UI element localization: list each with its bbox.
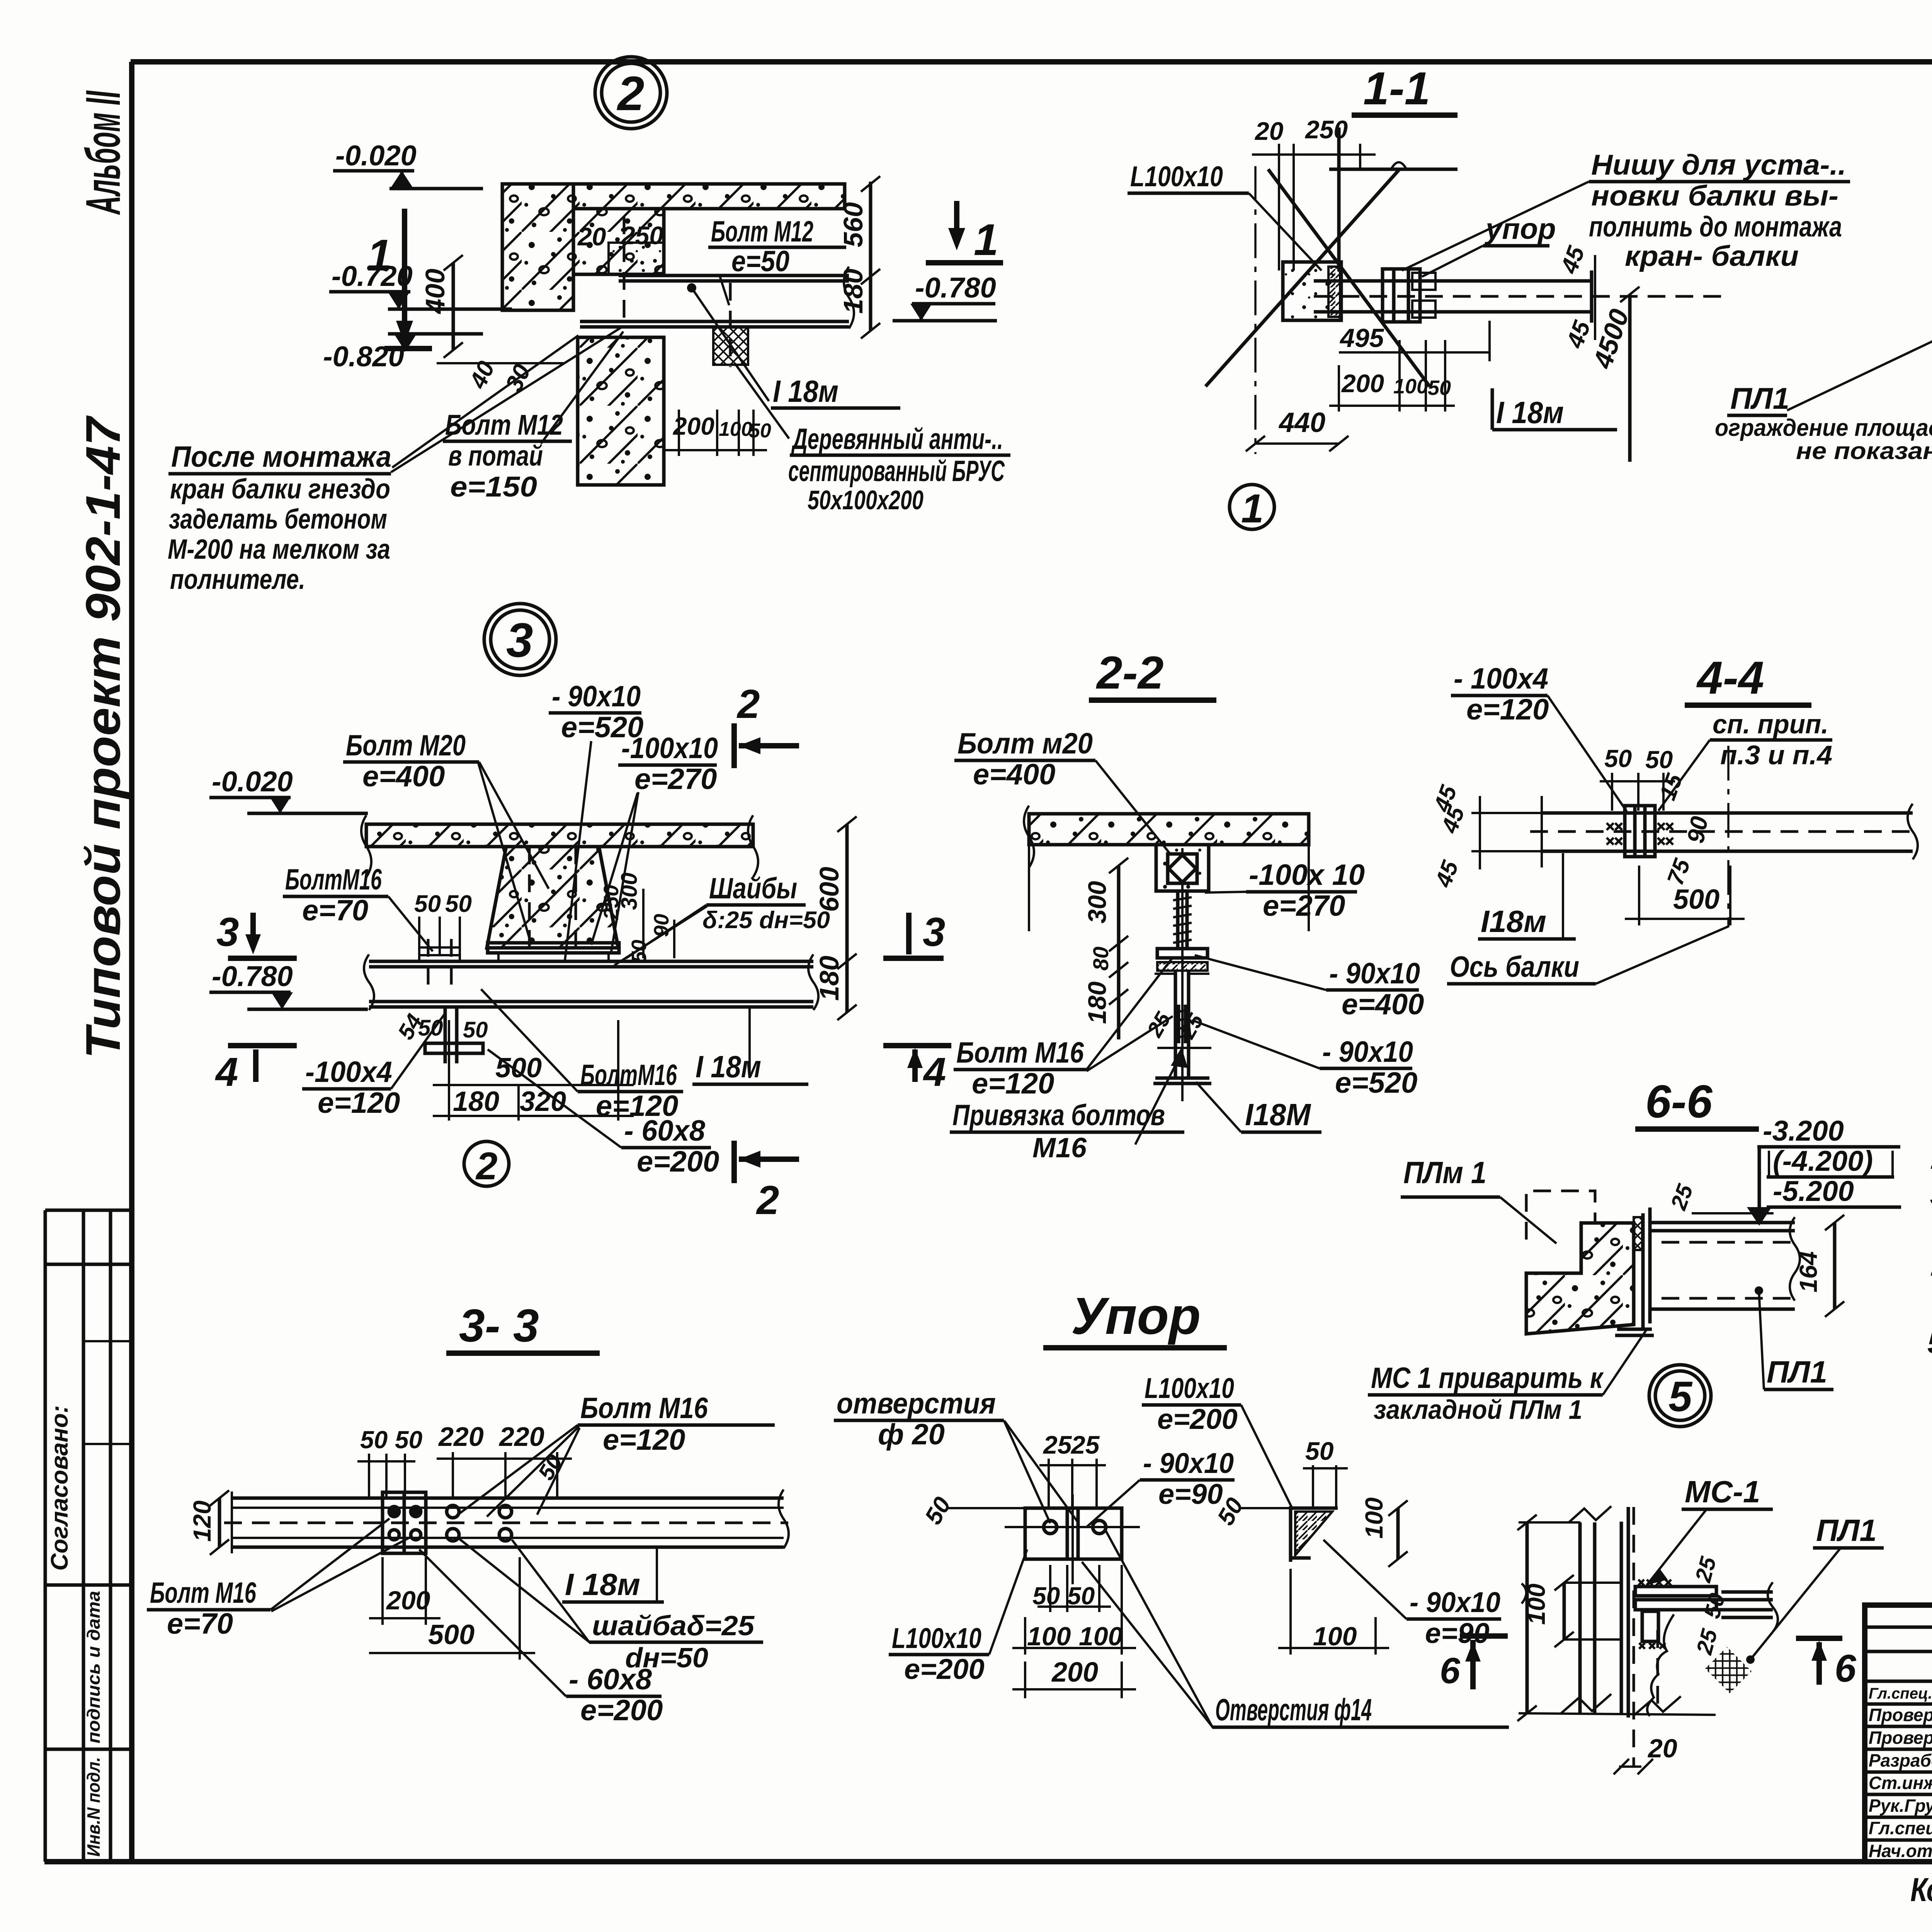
beam lines: [1542, 811, 1913, 815]
niche in plan: [1283, 262, 1341, 320]
plate plan: [1025, 1508, 1122, 1559]
svg-text:220: 220: [498, 1422, 544, 1452]
svg-text:180: 180: [814, 956, 844, 1001]
beam web vertical: [1174, 971, 1177, 1078]
svg-text:50: 50: [360, 1426, 388, 1454]
svg-text:е=400: е=400: [362, 760, 445, 793]
notes list: [1927, 1037, 1932, 1360]
dim chain right 560/180: [869, 182, 872, 331]
svg-text:подпись и дата: подпись и дата: [83, 1591, 104, 1743]
svg-text:е=520: е=520: [1335, 1066, 1417, 1099]
concrete corner dashed outline: [1526, 1191, 1635, 1240]
frame bottom line: [44, 1859, 1932, 1864]
svg-text:25: 25: [1692, 1626, 1723, 1658]
svg-text:е=200: е=200: [637, 1145, 719, 1178]
svg-text:400: 400: [420, 269, 450, 315]
svg-text:25: 25: [1690, 1554, 1721, 1585]
hook bolt below beam: [444, 1007, 447, 1063]
title block: [1865, 1605, 1932, 1864]
svg-text:200: 200: [1051, 1657, 1098, 1688]
svg-text:3: 3: [923, 910, 945, 955]
svg-text:2: 2: [756, 1178, 779, 1223]
concrete pedestal: [487, 847, 618, 948]
anchor bolt with threads: [1176, 891, 1180, 949]
node circle 1: [1230, 485, 1274, 529]
svg-text:-0.820: -0.820: [323, 340, 404, 372]
anchor box: [1156, 845, 1209, 891]
svg-text:25: 25: [1043, 1430, 1072, 1459]
svg-text:е=200: е=200: [904, 1653, 985, 1685]
bolt group left on beam: [427, 939, 430, 989]
frame top line: [131, 59, 1932, 65]
frame left line: [129, 62, 134, 1862]
svg-text:80: 80: [1088, 947, 1113, 971]
beam I18M bottom flange: [369, 1000, 813, 1003]
channel ПЛ1 right: [1721, 1590, 1773, 1594]
splice plate: [383, 1492, 426, 1553]
svg-text:δ:25 dн=50: δ:25 dн=50: [702, 907, 830, 934]
svg-text:полнителе.: полнителе.: [170, 564, 305, 595]
svg-text:- 60х8: - 60х8: [569, 1663, 652, 1696]
svg-text:-0.720: -0.720: [332, 260, 413, 292]
svg-text:заделать бетоном: заделать бетоном: [169, 504, 387, 535]
svg-text:50: 50: [920, 1493, 956, 1529]
svg-text:100: 100: [1360, 1497, 1388, 1539]
svg-text:3- 3: 3- 3: [459, 1300, 539, 1352]
svg-text:-3.200: -3.200: [1763, 1115, 1844, 1147]
svg-text:М16: М16: [1032, 1133, 1087, 1163]
svg-text:Отверстия ф14: Отверстия ф14: [1215, 1692, 1372, 1727]
svg-text:6-6: 6-6: [1645, 1076, 1713, 1128]
svg-text:После монтажа: После монтажа: [171, 440, 391, 473]
svg-text:- 90х10: - 90х10: [1410, 1586, 1500, 1618]
svg-text:250: 250: [1304, 115, 1348, 144]
svg-text:50: 50: [418, 1015, 443, 1041]
svg-text:50: 50: [445, 891, 472, 917]
svg-text:МС 1 приварить к: МС 1 приварить к: [1371, 1362, 1604, 1395]
svg-text:180: 180: [838, 269, 868, 314]
svg-text:- 90х10: - 90х10: [1322, 1036, 1413, 1068]
svg-text:Гл.спец.: Гл.спец.: [1869, 1818, 1932, 1838]
concrete wall under slab: [573, 209, 664, 274]
МС1 angle: [1641, 1213, 1645, 1329]
beam bottom flange: [1155, 1077, 1209, 1080]
svg-text:- 60х8: - 60х8: [624, 1114, 706, 1147]
svg-text:L100х10: L100х10: [1145, 1372, 1234, 1404]
section mark 6 right: [1796, 1636, 1842, 1641]
wooden brus cross-hatched: [713, 327, 748, 365]
svg-text:М-200 на мелком за: М-200 на мелком за: [168, 534, 390, 565]
svg-text:6: 6: [1440, 1650, 1461, 1691]
svg-text:50: 50: [1305, 1437, 1334, 1465]
signature rows: roles: [1869, 1685, 1932, 1861]
svg-text:50: 50: [395, 1426, 422, 1454]
svg-text:отверстия: отверстия: [837, 1387, 996, 1420]
svg-text:- 100х4: - 100х4: [1454, 662, 1548, 695]
svg-text:75: 75: [1662, 855, 1695, 888]
svg-text:Копировал Пихарева.: Копировал Пихарева.: [1910, 1871, 1932, 1908]
svg-text:е=120: е=120: [972, 1067, 1054, 1100]
svg-text:164: 164: [1794, 1251, 1822, 1293]
svg-text:50: 50: [414, 891, 441, 917]
svg-text:50: 50: [1645, 746, 1673, 774]
svg-text:е=400: е=400: [1342, 988, 1424, 1021]
column verticals: [1578, 1522, 1582, 1713]
svg-text:в потай: в потай: [448, 440, 543, 472]
nut plates: [1157, 949, 1207, 958]
svg-text:6: 6: [1835, 1647, 1857, 1690]
beam bolt below: [1177, 1005, 1180, 1043]
svg-text:е=70: е=70: [302, 894, 368, 927]
svg-text:I18м: I18м: [1481, 904, 1546, 939]
beam in plan: [1314, 279, 1592, 283]
section mark 6 left: [1460, 1633, 1508, 1639]
svg-text:100: 100: [719, 418, 752, 440]
svg-text:-0.020: -0.020: [212, 765, 293, 798]
svg-text:45: 45: [1556, 242, 1590, 278]
grout pocket fine dots: [609, 243, 664, 274]
svg-text:е=120: е=120: [1466, 693, 1549, 726]
svg-text:200: 200: [1341, 369, 1384, 398]
concrete corner hatched: [1526, 1223, 1634, 1334]
svg-text:-5.200: -5.200: [1773, 1175, 1854, 1207]
svg-text:е=90: е=90: [1425, 1617, 1490, 1649]
svg-text:ограждение площадки.условна: ограждение площадки.условна: [1715, 415, 1932, 441]
svg-text:не показано.: не показано.: [1796, 438, 1932, 464]
svg-text:Нач.отд.: Нач.отд.: [1869, 1841, 1932, 1861]
svg-text:Гл.спец.Т.О: Гл.спец.Т.О: [1869, 1685, 1932, 1702]
svg-text:220: 220: [438, 1422, 484, 1452]
wall diagonals: [1206, 169, 1400, 386]
svg-text:кран балки гнездо: кран балки гнездо: [170, 474, 390, 505]
svg-text:45: 45: [1430, 857, 1464, 891]
svg-text:50: 50: [463, 1017, 488, 1043]
angle side view: [1289, 1506, 1293, 1562]
svg-text:2: 2: [617, 67, 645, 121]
svg-text:2: 2: [1930, 1143, 1932, 1175]
svg-text:4.: 4.: [1930, 1253, 1932, 1286]
svg-text:(-4.200): (-4.200): [1773, 1145, 1873, 1177]
svg-text:I 18м: I 18м: [565, 1567, 640, 1602]
svg-text:ПЛм 1: ПЛм 1: [1403, 1155, 1486, 1190]
svg-text:20: 20: [577, 222, 606, 251]
svg-text:-100х 10: -100х 10: [1249, 859, 1365, 891]
svg-text:1-1: 1-1: [1363, 63, 1430, 114]
node circle 2 small: [464, 1141, 509, 1186]
svg-text:50: 50: [1604, 745, 1632, 772]
МС1 plates: [1635, 1587, 1716, 1596]
left stamp table: [45, 1210, 131, 1862]
svg-text:250: 250: [620, 221, 663, 250]
svg-text:440: 440: [1278, 407, 1325, 438]
svg-text:Болт М16: Болт М16: [150, 1577, 257, 1609]
svg-text:Согласовано:: Согласовано:: [46, 1405, 73, 1571]
axis line: [1727, 746, 1730, 927]
bolts: [389, 1505, 512, 1541]
beam plan: [232, 1497, 784, 1500]
node circle 5: [1649, 1365, 1711, 1427]
svg-text:- 90х10: - 90х10: [1143, 1447, 1234, 1479]
svg-text:4-4: 4-4: [1696, 652, 1764, 704]
упор bolt cluster: [1383, 269, 1420, 322]
svg-text:Привязка болтов: Привязка болтов: [952, 1099, 1165, 1132]
bottom break: [1561, 1694, 1681, 1715]
svg-text:250: 250: [600, 885, 623, 920]
svg-text:500: 500: [428, 1619, 474, 1650]
svg-text:180: 180: [1083, 981, 1111, 1024]
svg-text:БолтМ16: БолтМ16: [285, 863, 382, 896]
bolt M12 recessed dashed: [623, 216, 626, 327]
svg-text:495: 495: [1339, 323, 1384, 353]
svg-text:600: 600: [814, 867, 844, 912]
bottom captions: [1910, 1871, 1932, 1908]
svg-text:120: 120: [188, 1500, 216, 1542]
svg-text:п.3 и п.4: п.3 и п.4: [1720, 740, 1832, 770]
concrete slab: [1029, 814, 1309, 845]
svg-text:-0.780: -0.780: [212, 960, 293, 992]
concrete slab band: [573, 184, 845, 209]
svg-text:1: 1: [974, 215, 998, 265]
svg-text:300: 300: [1083, 881, 1111, 923]
svg-text:ПЛ1: ПЛ1: [1816, 1513, 1877, 1548]
svg-text:е=90: е=90: [1158, 1478, 1223, 1510]
svg-text:Болт М12: Болт М12: [711, 215, 813, 248]
beam I18M bottom flange: [580, 320, 849, 323]
svg-text:е=400: е=400: [973, 758, 1055, 791]
bolt cluster: [1625, 806, 1655, 857]
svg-text:ПЛ1: ПЛ1: [1730, 381, 1789, 415]
svg-text:Альбом II: Альбом II: [76, 90, 130, 215]
channel ПЛ1: [1650, 1221, 1795, 1225]
anchor bolt M12 dashed: [729, 283, 732, 367]
anchor bolts in pedestal: [528, 847, 531, 954]
svg-text:закладной ПЛм 1: закладной ПЛм 1: [1374, 1395, 1582, 1425]
right dim chain 600/180: [845, 824, 849, 1012]
svg-text:100: 100: [1027, 1622, 1071, 1651]
svg-text:-0.020: -0.020: [335, 139, 417, 172]
left margin vertical caption: [76, 90, 130, 1059]
svg-text:-100х4: -100х4: [305, 1056, 392, 1088]
concrete wall lower block: [578, 337, 664, 485]
svg-text:3: 3: [506, 614, 533, 667]
svg-text:5: 5: [1927, 1327, 1932, 1360]
svg-text:2: 2: [736, 682, 760, 727]
svg-text:Болт М20: Болт М20: [346, 729, 466, 762]
svg-text:е=70: е=70: [167, 1607, 233, 1640]
svg-text:-100х10: -100х10: [621, 732, 718, 765]
svg-text:новки балки вы-: новки балки вы-: [1591, 180, 1838, 212]
svg-text:I 18м: I 18м: [1496, 395, 1564, 430]
beam I18M top flange: [619, 274, 849, 277]
section mark 1 (right): [954, 201, 959, 240]
svg-text:Ось балки: Ось балки: [1450, 951, 1579, 983]
svg-text:Проверил: Проверил: [1869, 1728, 1932, 1748]
svg-text:L100х10: L100х10: [1130, 160, 1223, 192]
svg-text:180: 180: [453, 1086, 499, 1117]
concrete slab: [366, 824, 753, 847]
label Деревянный брус: [736, 365, 789, 439]
left dim chain 300/80/180: [1117, 866, 1121, 997]
beam I18M top flange: [369, 960, 813, 963]
svg-text:МС-1: МС-1: [1685, 1475, 1760, 1509]
svg-text:25: 25: [1070, 1430, 1100, 1459]
svg-text:Рук.Груп.: Рук.Груп.: [1869, 1796, 1932, 1816]
section mark 2 bottom right: [731, 1141, 737, 1183]
svg-text:50: 50: [1428, 376, 1451, 400]
svg-text:2: 2: [475, 1145, 498, 1188]
svg-text:шайбаδ=25: шайбаδ=25: [592, 1611, 755, 1641]
svg-text:3: 3: [216, 910, 239, 955]
svg-text:500: 500: [495, 1053, 542, 1083]
svg-text:септированный БРУС: септированный БРУС: [788, 455, 1005, 488]
svg-text:полнить до монтажа: полнить до монтажа: [1589, 211, 1842, 243]
svg-text:90: 90: [1682, 815, 1713, 845]
svg-text:Болт М16: Болт М16: [956, 1036, 1084, 1069]
svg-text:Болт М16: Болт М16: [580, 1392, 708, 1425]
svg-text:25: 25: [1666, 1181, 1698, 1213]
beam right break: [844, 267, 854, 328]
svg-text:Разработ.: Разработ.: [1869, 1750, 1932, 1770]
svg-text:4: 4: [215, 1049, 238, 1095]
revision squiggle: [1647, 1614, 1674, 1716]
svg-text:Проверил: Проверил: [1869, 1705, 1932, 1725]
svg-text:е=200: е=200: [1157, 1403, 1238, 1435]
svg-text:2-2: 2-2: [1096, 647, 1163, 699]
svg-text:90: 90: [650, 914, 673, 937]
svg-text:I18М: I18М: [1245, 1097, 1311, 1132]
anchor bolt axis: [1181, 848, 1184, 1101]
svg-text:-0.780: -0.780: [915, 272, 996, 304]
svg-text:е=270: е=270: [634, 763, 717, 796]
svg-text:е=150: е=150: [450, 471, 537, 503]
weld dots column: [1634, 1217, 1642, 1250]
svg-text:100: 100: [1522, 1583, 1550, 1625]
svg-text:Болт м20: Болт м20: [957, 727, 1093, 760]
svg-text:БолтМ16: БолтМ16: [580, 1059, 677, 1092]
svg-text:15: 15: [1654, 770, 1687, 803]
svg-text:1: 1: [1241, 486, 1264, 531]
node circle 3: [484, 604, 556, 675]
svg-text:е=120: е=120: [318, 1087, 400, 1119]
svg-text:Деревянный анти-..: Деревянный анти-..: [791, 423, 1003, 456]
svg-text:- 90х10: - 90х10: [1329, 957, 1420, 990]
rail plates under pedestal: [488, 943, 619, 953]
weld hatch patch: [1705, 1647, 1752, 1693]
svg-text:5: 5: [1668, 1373, 1693, 1420]
svg-text:4: 4: [923, 1049, 946, 1095]
svg-text:е=270: е=270: [1263, 889, 1345, 922]
svg-text:560: 560: [838, 202, 868, 247]
label I18M with leader: [692, 288, 769, 401]
axis centerline: [1254, 166, 1257, 454]
node circle 2: [595, 57, 667, 129]
svg-text:3.: 3.: [1930, 1179, 1932, 1211]
svg-text:е=120: е=120: [603, 1423, 685, 1456]
svg-text:- 90х10: - 90х10: [552, 680, 641, 713]
concrete wall upper-left block: [502, 184, 573, 310]
svg-text:Шайбы: Шайбы: [709, 872, 797, 905]
svg-text:Типовой проект 902-1-47: Типовой проект 902-1-47: [76, 415, 130, 1059]
svg-text:I 18м: I 18м: [696, 1049, 761, 1084]
svg-text:Ст.инж.: Ст.инж.: [1869, 1773, 1932, 1793]
svg-text:100: 100: [1313, 1622, 1357, 1651]
top break: [1569, 1506, 1611, 1522]
svg-text:кран- балки: кран- балки: [1625, 240, 1799, 272]
svg-text:ф 20: ф 20: [878, 1418, 945, 1451]
svg-text:I 18м: I 18м: [773, 374, 838, 408]
svg-text:Упор: Упор: [1071, 1287, 1201, 1345]
svg-text:100: 100: [1079, 1622, 1123, 1651]
svg-text:200: 200: [386, 1586, 430, 1615]
svg-text:Нишу для уста-..: Нишу для уста-..: [1591, 149, 1846, 181]
svg-text:500: 500: [1673, 884, 1719, 915]
svg-text:50: 50: [749, 420, 771, 442]
svg-text:50: 50: [628, 940, 651, 963]
svg-text:е=200: е=200: [580, 1694, 663, 1727]
svg-text:е=50: е=50: [731, 245, 789, 278]
left tall dim: [1526, 1522, 1529, 1713]
svg-text:L100х10: L100х10: [892, 1622, 981, 1654]
svg-text:ПЛ1: ПЛ1: [1767, 1355, 1827, 1389]
svg-text:20: 20: [1254, 117, 1284, 145]
svg-text:Инв.N подл.: Инв.N подл.: [83, 1757, 104, 1857]
svg-text:упор: упор: [1484, 213, 1556, 245]
svg-text:50х100х200: 50х100х200: [808, 485, 923, 515]
svg-text:сп. прип.: сп. прип.: [1713, 709, 1828, 739]
